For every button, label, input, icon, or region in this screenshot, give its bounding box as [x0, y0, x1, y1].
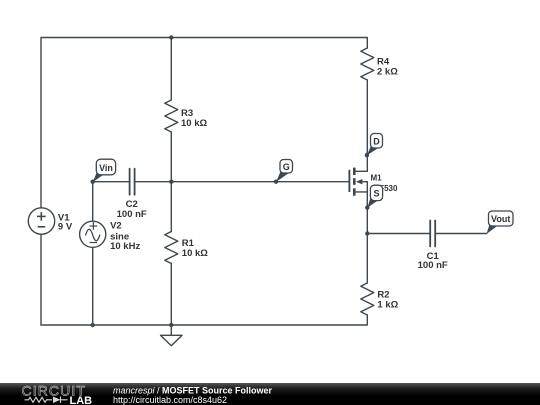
svg-text:Vin: Vin: [99, 163, 113, 173]
svg-text:2 kΩ: 2 kΩ: [377, 67, 398, 78]
svg-text:M1: M1: [371, 174, 383, 183]
svg-text:100 nF: 100 nF: [418, 260, 448, 271]
svg-text:10 kHz: 10 kHz: [110, 241, 140, 252]
svg-text:S: S: [373, 189, 379, 199]
svg-text:http://circuitlab.com/c8s4u62: http://circuitlab.com/c8s4u62: [113, 395, 227, 405]
svg-text:Vout: Vout: [491, 214, 510, 224]
svg-text:9 V: 9 V: [58, 222, 73, 233]
svg-text:V2: V2: [110, 221, 122, 232]
svg-text:100 nF: 100 nF: [117, 209, 147, 220]
svg-text:D: D: [373, 136, 380, 146]
svg-text:1 kΩ: 1 kΩ: [377, 300, 398, 311]
svg-text:10 kΩ: 10 kΩ: [181, 118, 207, 129]
svg-text:10 kΩ: 10 kΩ: [182, 248, 208, 259]
svg-text:mancrespi / MOSFET Source Foll: mancrespi / MOSFET Source Follower: [113, 386, 273, 396]
svg-text:LAB: LAB: [70, 395, 93, 405]
svg-text:G: G: [283, 162, 290, 172]
